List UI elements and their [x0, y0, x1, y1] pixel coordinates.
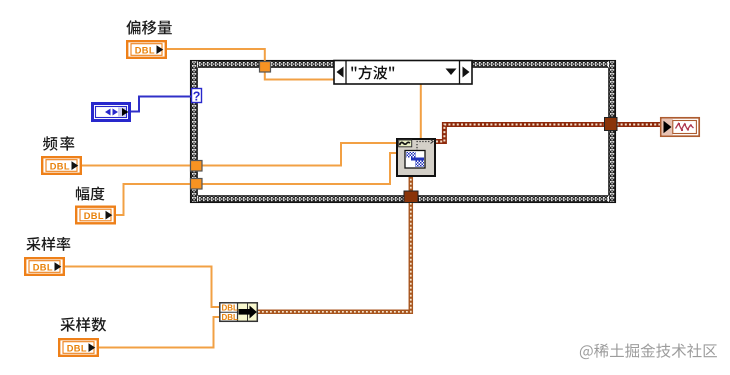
case structure frame [190, 60, 616, 203]
wire: sample count control to bundle node (orange) [98, 317, 219, 348]
label 偏移量 [126, 20, 171, 34]
waveform graph indicator terminal [661, 118, 699, 136]
svg-text:DBL: DBL [84, 211, 104, 221]
svg-text:DBL: DBL [135, 46, 155, 56]
numeric control DBL: sample rate (采样率) [25, 258, 64, 275]
numeric control DBL: frequency (频率) [42, 157, 81, 174]
wire: waveform output from function generator to graph (dark brown dotted, via right tunnel) [436, 125, 660, 142]
wire: sampling-info cluster from bundle to function generator (brown dotted, via bottom tunnel) [258, 177, 411, 312]
wire: frequency control to function generator (orange, via left tunnel) [82, 143, 396, 166]
label 采样数 [60, 317, 106, 332]
svg-text:DBL: DBL [222, 304, 239, 313]
svg-text:DBL: DBL [222, 313, 239, 322]
label 幅度 [76, 186, 105, 200]
svg-text:DBL: DBL [33, 263, 53, 273]
case selector label "方波" with prev/next arrows [334, 61, 472, 85]
wire: enum constant to case selector terminal (blue) [131, 97, 191, 112]
tunnel: amplitude input (orange, left border) [191, 179, 203, 190]
numeric control DBL: sample count (采样数) [59, 339, 98, 356]
numeric control DBL: amplitude (幅度) [76, 207, 115, 224]
svg-text:?: ? [193, 89, 201, 103]
label 频率 [43, 136, 74, 151]
tunnel: frequency input (orange, left border) [191, 161, 203, 172]
numeric control DBL: offset (偏移量) [127, 41, 166, 58]
case selector terminal "?" on left border [192, 89, 202, 104]
enum constant (wave type selector) [93, 104, 130, 121]
tunnel: sampling-info cluster input (brown, bottom border) [404, 191, 418, 203]
wire: offset control to function generator (orange, via top tunnel) [167, 49, 421, 138]
label 采样率 [26, 237, 70, 251]
svg-text:DBL: DBL [67, 344, 87, 354]
wire: amplitude control to function generator (orange, via left tunnel) [114, 153, 396, 215]
bundle node (sampling info: rate + count) [220, 303, 257, 322]
tunnel: waveform output (brown, right border) [605, 118, 618, 131]
wire: sample rate control to bundle node (orange) [65, 267, 219, 308]
watermark 稀土掘金 community [580, 343, 717, 359]
subVI: basic function generator U1 [397, 139, 435, 176]
tunnel: offset input (orange, top border) [260, 62, 271, 73]
svg-text:DBL: DBL [50, 162, 70, 172]
